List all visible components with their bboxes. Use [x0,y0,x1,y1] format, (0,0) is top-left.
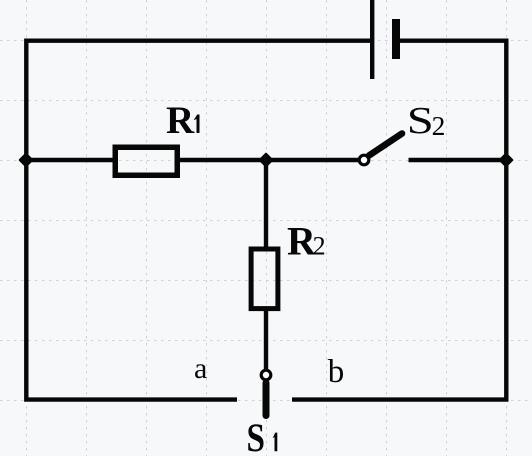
node junction left [20,154,32,166]
wire R2 down to S1 [264,310,268,370]
node label a [194,352,207,385]
node junction right [500,154,512,166]
wire node down to R2 [264,160,268,248]
svg-text:R: R [166,99,195,142]
wire top-left + left side + bottom-left [26,41,370,400]
wire middle-left (node to R1) [24,158,114,162]
switch S2 blade [369,134,402,156]
node label b [328,354,345,390]
svg-text:S: S [407,100,434,142]
battery B1 long plate [370,0,374,79]
switch S1 blade [263,383,270,416]
resistor R1 [115,147,177,175]
label R2 [287,219,326,264]
switch S1 pivot circle [261,370,271,380]
label S1 [247,416,278,456]
svg-text:S: S [247,416,265,456]
resistor R2 [251,249,278,309]
svg-text:2: 2 [432,110,446,141]
battery B1 short thick plate [392,19,400,59]
svg-text:2: 2 [313,232,326,261]
node junction center [260,154,272,166]
label S2 [407,100,446,142]
svg-text:a: a [194,352,207,385]
svg-text:b: b [328,354,345,390]
wire S2 to right node [409,158,507,162]
switch S2 pivot circle [359,155,369,165]
wire R1 to S2 circle [179,158,358,162]
label R1 [166,99,200,142]
wire top-right + right side + bottom-right [292,41,506,400]
